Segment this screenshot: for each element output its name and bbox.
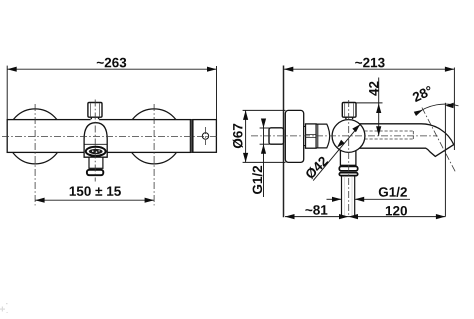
label 120	[386, 206, 407, 216]
dim O67 line	[245, 110, 247, 162]
end piece circle	[202, 133, 208, 139]
outlet band bar 1	[339, 166, 357, 170]
dome joint line	[84, 143, 107, 145]
arrow ~263 right	[207, 67, 217, 72]
spout	[359, 124, 454, 157]
dim O67 extension bottom	[243, 161, 286, 163]
dim bottom line ~81 / 120	[285, 216, 445, 218]
aerator ellipse inner mesh	[89, 149, 103, 154]
label ~81	[305, 205, 327, 215]
label 150 plus-minus 15	[70, 186, 121, 196]
dim G1/2 wall extension top	[260, 127, 270, 129]
shower end piece	[193, 120, 217, 153]
dim O67 extension top	[243, 109, 286, 111]
left circle 2 vertical axis	[153, 104, 155, 205]
arrow 42 top	[376, 104, 381, 114]
right view vertical axis	[348, 100, 350, 216]
faucet body rectangle	[7, 120, 190, 153]
dim 150+-15 line	[35, 199, 154, 201]
G1/2 wall nipple	[269, 128, 284, 144]
arrow ~263 left	[7, 67, 17, 72]
arrow O42 upper right	[352, 124, 360, 132]
label G1/2 wall thread (rotated)	[252, 166, 262, 194]
CENTERLINES	[2, 100, 455, 217]
arrow 150 right	[145, 198, 155, 203]
knob feet	[345, 117, 347, 119]
arrow G1/2 wall bottom	[261, 144, 266, 154]
washer	[304, 127, 306, 146]
end piece circle vertical axis	[205, 127, 207, 145]
nozzle cylinder	[89, 157, 103, 168]
dim G1/2 wall extension bottom	[260, 143, 270, 145]
arrow O67 top	[243, 110, 248, 120]
dim G1/2 wall line	[263, 119, 265, 198]
arrow G1/2 outlet right	[355, 197, 365, 202]
outlet band bar 2	[339, 173, 357, 176]
connector cylinder	[316, 124, 330, 148]
escutcheon circle right	[127, 109, 182, 164]
body top edge gap under handle	[91, 118, 100, 121]
dim 28/120 extension vertical	[444, 103, 446, 217]
label G1/2 outlet thread	[379, 187, 407, 197]
left spout vertical axis	[94, 100, 96, 182]
dim ~213 line	[284, 68, 455, 70]
joint double line	[190, 120, 192, 153]
arrow 28 arc right	[445, 103, 454, 109]
cartridge body circle	[332, 120, 365, 153]
arrow O42 lower left	[337, 140, 345, 148]
dim ~263 extension left	[6, 66, 8, 120]
dim ~213 extension right	[453, 68, 455, 151]
arrow bottom center right-pointing	[339, 214, 349, 219]
dim G1/2 outlet line left	[327, 198, 342, 200]
spout dome left view	[84, 123, 107, 158]
arrow bottom far left	[285, 214, 295, 219]
knob feet	[90, 117, 92, 119]
arrow bottom center left-pointing	[349, 214, 359, 219]
label 28 degrees	[412, 85, 434, 102]
arrow G1/2 wall top	[261, 119, 266, 129]
label 42 (rotated)	[369, 82, 378, 96]
wall line	[283, 66, 285, 218]
label ~213	[355, 58, 384, 68]
outlet tube	[341, 176, 343, 217]
arrow O67 bottom	[243, 153, 248, 163]
DIMENSIONS	[7, 66, 458, 217]
dim ~263 extension right	[216, 66, 218, 120]
label ~263	[97, 58, 126, 68]
spout waterway hidden dashes	[365, 130, 414, 132]
escutcheon circle left	[8, 109, 63, 164]
connector nut	[306, 124, 317, 148]
dim 28 deg arc	[416, 104, 459, 114]
label diameter 67 (rotated)	[233, 124, 243, 148]
arrow ~213 left	[284, 67, 294, 72]
arrow 42 bottom	[376, 126, 381, 136]
outlet slanted axis 28 deg	[422, 108, 455, 172]
arrow ~213 right	[445, 67, 455, 72]
aerator ring	[87, 170, 103, 175]
left view horizontal axis	[2, 135, 218, 137]
faint corner speck	[0, 303, 8, 313]
dim ~263 line	[7, 68, 216, 70]
dim 42 extension	[356, 102, 382, 104]
left circle 1 vertical axis	[34, 104, 36, 205]
dim G1/2 outlet line right	[355, 198, 410, 200]
outlet upper cylinder	[340, 150, 356, 166]
label diameter 42 (rotated)	[304, 155, 328, 179]
right view horizontal axis	[251, 135, 438, 137]
dim O42 diagonal line	[313, 124, 360, 180]
dim 42 line	[378, 78, 380, 136]
escutcheon side view	[285, 110, 303, 162]
connector separator	[317, 124, 319, 148]
arrow 28 arc left	[414, 110, 423, 116]
arrow G1/2 outlet left	[332, 197, 342, 202]
arrow bottom far right	[436, 214, 446, 219]
aerator ellipse outer	[86, 147, 106, 156]
ARROWHEADS	[7, 67, 454, 220]
arrow 150 left	[35, 198, 45, 203]
diverter knob left view	[88, 103, 102, 118]
diverter knob side view	[342, 103, 356, 118]
